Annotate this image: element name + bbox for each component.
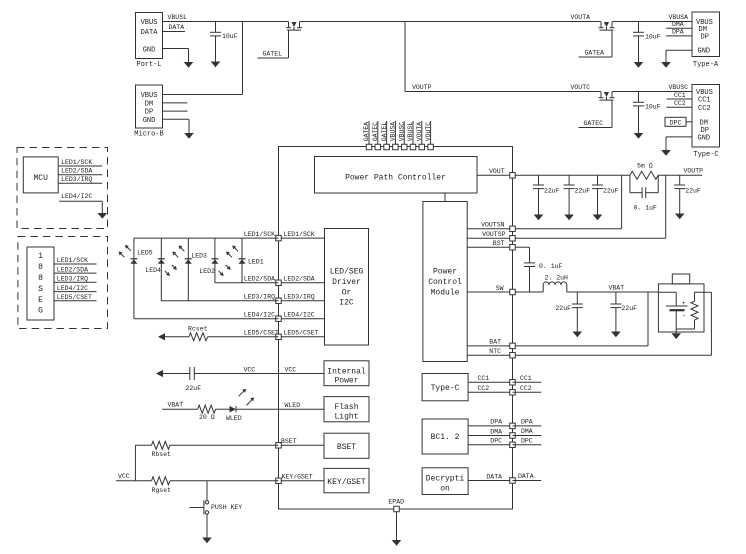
svg-text:LED3: LED3	[191, 253, 207, 260]
transistor GATEA load switch	[599, 22, 615, 31]
wire LED5/CSET into driver	[279, 330, 325, 337]
wire CC2 stub	[667, 100, 693, 107]
wire EPAD ground	[396, 512, 398, 541]
wire 188SEG LED1/SCK	[54, 257, 97, 264]
diode LED5	[130, 250, 152, 264]
pin stub VOUTC	[425, 121, 432, 145]
wire push key to ground	[206, 514, 208, 537]
connector Type-A	[692, 12, 720, 69]
wire LED5/CSET line	[163, 329, 280, 336]
svg-text:BST: BST	[493, 240, 505, 247]
connector Port-L	[136, 13, 163, 70]
wire WLED line	[162, 401, 278, 409]
wire DPA external stub	[513, 418, 542, 426]
wire LED5 branch	[133, 238, 135, 319]
svg-text:VBUS: VBUS	[141, 19, 158, 27]
wire LED2/SDA into driver	[279, 276, 325, 283]
capacitor 22uF VBAT 2	[610, 292, 637, 337]
svg-text:+: +	[682, 300, 686, 307]
thermistor NTC in pack	[676, 292, 698, 329]
wire BST from PCM	[467, 240, 512, 247]
ground Type-C	[661, 150, 671, 156]
pin stub GATEC	[372, 121, 379, 145]
pin square VOUT	[510, 173, 516, 179]
module BC1.2 box	[422, 419, 468, 454]
wire DMA stub	[666, 21, 692, 28]
pin square BST	[510, 244, 516, 250]
pin square SW	[510, 289, 516, 295]
svg-text:Or: Or	[342, 288, 352, 297]
svg-text:Module: Module	[431, 289, 460, 298]
battery pack outline	[658, 274, 704, 332]
svg-text:LED5/CSET: LED5/CSET	[57, 294, 92, 301]
svg-text:22uF: 22uF	[186, 385, 202, 392]
svg-text:22uF: 22uF	[685, 188, 701, 195]
capacitor 0.1uF across sense	[630, 175, 658, 211]
wire SW to inductor	[515, 291, 543, 293]
svg-text:DATA: DATA	[486, 473, 502, 480]
wire VBUSL rail after GATEL to GATEA	[300, 21, 601, 23]
svg-text:LED2/SDA: LED2/SDA	[244, 275, 275, 282]
svg-text:DPC: DPC	[490, 438, 502, 445]
svg-text:VCC: VCC	[244, 366, 256, 373]
diode LED4	[145, 259, 165, 274]
svg-text:MCU: MCU	[33, 174, 48, 183]
wire VCC line	[163, 366, 279, 373]
svg-text:8: 8	[38, 274, 43, 283]
svg-text:GND: GND	[698, 48, 711, 56]
wire CC1 stub	[667, 92, 693, 99]
wire Type-A GND	[666, 50, 692, 62]
wire LED4 branch	[160, 238, 162, 301]
svg-text:VBUSL: VBUSL	[407, 122, 414, 142]
pin square EPAD	[388, 499, 404, 512]
svg-text:22uF: 22uF	[575, 188, 591, 195]
pin stub GATEA	[363, 121, 370, 145]
svg-text:Driver: Driver	[332, 278, 361, 287]
diode LED3	[185, 253, 207, 264]
pin square LED1/SCK	[276, 235, 282, 241]
pin square GATEL	[384, 144, 390, 150]
svg-text:LED4/I2C: LED4/I2C	[57, 285, 88, 292]
svg-text:0. 1uF: 0. 1uF	[539, 263, 563, 270]
capacitor 22uF VOUT 2	[564, 175, 591, 220]
wire battery ground	[675, 329, 677, 333]
pin square VOUTSP	[510, 236, 516, 242]
capacitor 0.1uF BST	[524, 263, 563, 292]
wire LED3/IRQ return	[161, 293, 278, 300]
ground Micro-B	[184, 133, 194, 139]
wire BAT from PCM	[467, 339, 512, 346]
svg-text:DPC: DPC	[521, 437, 533, 444]
ground Type-A	[661, 62, 671, 68]
svg-text:VOUT: VOUT	[489, 168, 505, 175]
label GATEC	[584, 120, 604, 127]
svg-text:LED1/SCK: LED1/SCK	[244, 231, 275, 238]
wire VBUSA rail to Type-A	[612, 14, 692, 22]
MCU box	[23, 157, 58, 193]
pin square DPA	[510, 423, 516, 429]
resistor 20 Ohm	[198, 405, 216, 421]
wire GATEL gate	[258, 30, 289, 58]
wire CC1 from Type-C module	[468, 375, 512, 382]
svg-text:BAT: BAT	[489, 339, 501, 346]
wire LED3 branch	[187, 238, 189, 301]
ground PUSH KEY	[202, 538, 212, 544]
module Flash Light box	[324, 397, 369, 422]
wire DMA external stub	[513, 428, 542, 436]
svg-text:22uF: 22uF	[603, 188, 619, 195]
wire push key drop	[206, 481, 208, 501]
svg-text:VBUSL: VBUSL	[168, 14, 188, 21]
svg-text:BSET: BSET	[337, 443, 356, 452]
wire VOUTSN sense	[515, 175, 622, 229]
svg-text:VOUTP: VOUTP	[684, 168, 704, 175]
svg-text:VBUS: VBUS	[141, 92, 158, 100]
module KEY/GSET box	[324, 468, 369, 492]
wire Micro-B GND	[163, 119, 190, 133]
wire BSET line	[135, 444, 278, 446]
IC package outline	[279, 147, 513, 510]
module Power Control Module box	[423, 202, 467, 362]
capacitor 10uF at Port-L VBUS	[210, 22, 238, 68]
svg-text:LED5/CSET: LED5/CSET	[284, 330, 319, 337]
svg-text:Rgset: Rgset	[152, 487, 172, 494]
wire Micro-B DP stub	[163, 110, 188, 112]
svg-text:22uF: 22uF	[555, 305, 571, 312]
pin stub VBUSC	[398, 121, 405, 145]
wire LED1 branch	[241, 238, 243, 283]
resistor Rbset	[152, 441, 172, 458]
arrow MCU LED4/I2C	[98, 213, 108, 219]
pin square VBUSL	[410, 144, 416, 150]
capacitor 22uF VOUT 3	[592, 175, 619, 220]
svg-text:Internal: Internal	[327, 367, 366, 376]
wire SW from PCM	[467, 285, 512, 292]
capacitor 10uF at Type-A	[633, 22, 661, 68]
svg-text:S: S	[38, 285, 43, 294]
svg-text:22uF: 22uF	[544, 188, 560, 195]
wire LED1/SCK rail	[134, 231, 279, 238]
svg-text:VCC: VCC	[118, 473, 130, 480]
wire DPA stub	[666, 29, 692, 36]
pin square VOUTA	[419, 144, 425, 150]
svg-text:CC1: CC1	[698, 97, 711, 105]
ground Port-L	[184, 62, 194, 68]
connector Type-C	[692, 85, 720, 159]
wire NTC from PCM	[467, 348, 512, 355]
wire BSET into BSET box	[279, 438, 325, 445]
arrow LED5/CSET	[158, 333, 165, 340]
pin square LED3/IRQ	[276, 298, 282, 304]
svg-text:G: G	[38, 307, 43, 316]
svg-text:LED2/SDA: LED2/SDA	[284, 276, 315, 283]
wire WLED into Flash Light	[279, 402, 325, 409]
wire LED1/SCK into driver	[279, 231, 325, 238]
wire CC2 external stub	[513, 385, 542, 393]
pin square BAT	[510, 343, 516, 349]
label GATEL	[263, 51, 283, 58]
svg-text:Micro-B: Micro-B	[134, 131, 163, 139]
node DPC box	[665, 117, 692, 126]
svg-text:10uF: 10uF	[645, 103, 661, 110]
LED5 emission arrows	[119, 245, 131, 257]
svg-text:GATEA: GATEA	[363, 122, 370, 142]
svg-text:PUSH KEY: PUSH KEY	[211, 504, 242, 511]
LED4 emission arrows	[165, 265, 177, 276]
svg-text:DP: DP	[145, 109, 153, 117]
svg-text:GATEC: GATEC	[372, 122, 379, 142]
svg-text:WLED: WLED	[226, 415, 242, 422]
svg-text:Rbset: Rbset	[152, 451, 172, 458]
transistor GATEC load switch	[599, 92, 615, 101]
svg-text:DATA: DATA	[518, 473, 534, 480]
svg-text:GND: GND	[698, 135, 711, 143]
pin square LED5/CSET	[276, 334, 282, 340]
wire MCU LED4/I2C	[59, 193, 102, 213]
wire LED3/IRQ into driver	[279, 294, 325, 301]
svg-text:DMA: DMA	[521, 428, 533, 435]
svg-text:WLED: WLED	[285, 402, 301, 409]
module Internal Power box	[324, 361, 369, 386]
diode WLED	[226, 406, 242, 422]
svg-text:LED3/IRQ: LED3/IRQ	[61, 176, 92, 183]
svg-text:NTC: NTC	[489, 348, 501, 355]
wire DATA external stub	[513, 473, 542, 481]
wire Type-C GND	[666, 137, 692, 150]
svg-text:on: on	[440, 484, 450, 493]
wire 188SEG LED3/IRQ	[54, 275, 97, 282]
188SEG dashed boundary	[18, 237, 108, 329]
wire KEY/GSET into box	[279, 474, 325, 481]
svg-text:VBUSC: VBUSC	[398, 122, 405, 142]
pin square DATA	[510, 478, 516, 484]
arrow VCC	[156, 370, 163, 377]
wire Rbset feed	[134, 445, 136, 481]
svg-text:BC1. 2: BC1. 2	[431, 433, 460, 442]
svg-text:LED3/IRQ: LED3/IRQ	[244, 293, 275, 300]
svg-text:DPA: DPA	[490, 419, 502, 426]
svg-text:10uF: 10uF	[222, 33, 238, 40]
wire VOUTSN from PCM	[467, 222, 512, 229]
wire Micro-B VBUS to rail	[163, 22, 243, 95]
wire BAT return	[515, 292, 648, 346]
pin stub VBUSL	[407, 121, 414, 145]
module Decryption box	[422, 468, 468, 495]
svg-text:LED1/SCK: LED1/SCK	[284, 231, 315, 238]
svg-text:20 Ω: 20 Ω	[199, 414, 215, 421]
pin stub VOUTA	[416, 121, 423, 145]
svg-text:LED1: LED1	[248, 258, 264, 265]
module BSET box	[324, 433, 369, 458]
wire VOUT from PPC	[477, 168, 513, 176]
wire 188SEG LED5/CSET	[54, 294, 97, 301]
diode LED2	[199, 259, 218, 275]
wire VBAT rail	[567, 284, 659, 292]
svg-text:Decrypti: Decrypti	[426, 474, 465, 483]
ground EPAD	[392, 540, 402, 546]
svg-text:Flash: Flash	[334, 403, 358, 412]
LED2 emission arrows	[219, 265, 231, 276]
resistor Rcset	[188, 325, 208, 341]
wire DPC from BC1.2	[468, 438, 512, 445]
svg-text:CC1: CC1	[478, 375, 490, 382]
wire LED2/SDA return	[215, 275, 279, 282]
188SEG display box	[27, 247, 54, 320]
svg-text:Power: Power	[433, 268, 457, 277]
pin square VOUTSN	[510, 226, 516, 232]
op-amp U-PPC Power Path Controller box	[315, 157, 478, 194]
svg-text:VOUTSP: VOUTSP	[482, 231, 506, 238]
wire VOUTSP from PCM	[467, 231, 512, 238]
capacitor 10uF at Type-C	[633, 92, 661, 139]
svg-text:GATEL: GATEL	[381, 122, 388, 142]
pin square NTC	[510, 352, 516, 358]
svg-text:VBAT: VBAT	[609, 284, 625, 291]
LED3 emission arrows	[172, 245, 184, 257]
svg-text:DP: DP	[701, 34, 709, 42]
pin square VBUSA	[393, 144, 399, 150]
label GATEA	[585, 50, 605, 57]
pin square GATEA	[366, 144, 372, 150]
wire DPA from BC1.2	[468, 419, 512, 426]
svg-text:I2C: I2C	[339, 299, 354, 308]
svg-text:LED5/CSET: LED5/CSET	[244, 329, 279, 336]
svg-text:VBUSA: VBUSA	[390, 122, 397, 142]
wire VOUTSP sense	[515, 175, 666, 238]
battery cell	[658, 292, 687, 329]
svg-text:LED4/I2C: LED4/I2C	[61, 193, 92, 200]
svg-text:CC1: CC1	[674, 92, 686, 99]
svg-text:22uF: 22uF	[621, 305, 637, 312]
pin square LED4/I2C	[276, 316, 282, 322]
svg-text:DMA: DMA	[672, 21, 684, 28]
diode LED1	[239, 258, 264, 265]
svg-text:VBUSA: VBUSA	[669, 14, 689, 21]
pin square VBUSC	[401, 144, 407, 150]
svg-text:CC2: CC2	[698, 105, 711, 113]
svg-text:CC2: CC2	[674, 100, 686, 107]
capacitor 22uF VOUT 1	[533, 175, 560, 220]
wire GATEA gate	[579, 30, 613, 57]
wire NTC return	[515, 292, 711, 355]
wire LED4/I2C return	[134, 311, 279, 318]
svg-text:LED1/SCK: LED1/SCK	[61, 159, 92, 166]
wire CC2 from Type-C module	[468, 385, 512, 392]
svg-text:LED5: LED5	[137, 250, 153, 257]
LED1 emission arrows	[226, 245, 238, 257]
svg-text:GND: GND	[143, 47, 156, 55]
svg-text:E: E	[38, 296, 43, 305]
pin stub VBUSA	[390, 121, 397, 145]
svg-text:Control: Control	[428, 278, 462, 287]
svg-text:CC2: CC2	[478, 385, 490, 392]
svg-text:VCC: VCC	[285, 366, 297, 373]
svg-text:VBUSC: VBUSC	[669, 84, 689, 91]
connector Micro-B	[134, 85, 163, 139]
svg-text:SW: SW	[496, 285, 504, 292]
svg-text:8: 8	[38, 263, 43, 272]
pin square CC1	[510, 380, 516, 386]
svg-text:LED3/IRQ: LED3/IRQ	[57, 275, 88, 282]
wire DPC external stub	[513, 437, 542, 445]
svg-text:Type-C: Type-C	[431, 384, 460, 393]
svg-text:VOUTC: VOUTC	[425, 122, 432, 142]
wire DATA from Decryption	[468, 473, 512, 480]
module LED/SEG Driver box	[325, 229, 369, 346]
svg-text:Type-A: Type-A	[693, 61, 719, 69]
wire CC1 external stub	[513, 375, 542, 383]
capacitor 22uF VCC	[186, 367, 202, 392]
capacitor 22uF VBAT 1	[555, 292, 582, 337]
svg-text:GATEL: GATEL	[263, 51, 283, 58]
svg-text:LED4/I2C: LED4/I2C	[284, 312, 315, 319]
wire 188SEG LED2/SDA	[54, 266, 97, 273]
wire BST to cap	[515, 247, 530, 263]
wire DATA stub from Port-L	[163, 24, 186, 31]
svg-text:VBAT: VBAT	[168, 401, 184, 408]
svg-text:DATA: DATA	[141, 29, 159, 37]
svg-text:LED2/SDA: LED2/SDA	[57, 266, 88, 273]
svg-text:VOUTC: VOUTC	[571, 84, 591, 91]
svg-text:EPAD: EPAD	[388, 499, 404, 506]
wire VOUTP rail to GATEC	[405, 84, 601, 92]
wire LED4/I2C into driver	[279, 312, 325, 319]
svg-text:DATA: DATA	[169, 24, 185, 31]
svg-text:KEY/GSET: KEY/GSET	[327, 478, 366, 487]
svg-text:10uF: 10uF	[645, 33, 661, 40]
svg-text:DM: DM	[145, 101, 153, 109]
wire 188SEG LED4/I2C	[54, 285, 97, 292]
pin square CC2	[510, 390, 516, 396]
pin square LED2/SDA	[276, 280, 282, 286]
module Type-C logic box	[422, 374, 468, 401]
svg-text:-: -	[682, 313, 686, 321]
pin square BSET	[276, 443, 282, 449]
pin stub GATEL	[381, 121, 388, 145]
svg-text:GATEA: GATEA	[585, 50, 605, 57]
svg-text:VOUTP: VOUTP	[412, 84, 432, 91]
inductor 2.2uH	[543, 275, 568, 292]
wire Port-L GND	[163, 49, 189, 63]
wire VOUTP drop from rail	[404, 22, 406, 92]
svg-text:GND: GND	[143, 117, 156, 125]
transistor GATEL load switch	[286, 22, 302, 31]
svg-text:DPA: DPA	[672, 29, 684, 36]
resistor Rgset	[152, 477, 172, 494]
wire PPC to PCM	[444, 193, 446, 202]
wire VCC to KEY/GSET	[116, 473, 279, 481]
svg-text:Type-C: Type-C	[693, 151, 718, 159]
pin square KEY/GSET	[276, 478, 282, 484]
pin square VOUTC	[428, 144, 434, 150]
svg-text:Rcset: Rcset	[188, 325, 208, 332]
wire LED2 branch	[214, 238, 216, 283]
switch PUSH KEY	[190, 500, 243, 515]
svg-text:BSET: BSET	[281, 438, 297, 445]
ground battery	[671, 333, 681, 339]
wire GATEC gate	[579, 100, 613, 127]
svg-text:LED4/I2C: LED4/I2C	[244, 311, 275, 318]
svg-text:LED3/IRQ: LED3/IRQ	[284, 294, 315, 301]
svg-text:DMA: DMA	[490, 428, 502, 435]
MCU dashed boundary	[17, 148, 108, 229]
label VOUTA	[571, 14, 591, 21]
svg-text:5m Ω: 5m Ω	[637, 162, 653, 169]
wire VCC into Internal Power	[279, 366, 325, 373]
pin square GATEC	[375, 144, 381, 150]
wire DMA from BC1.2	[468, 428, 512, 435]
